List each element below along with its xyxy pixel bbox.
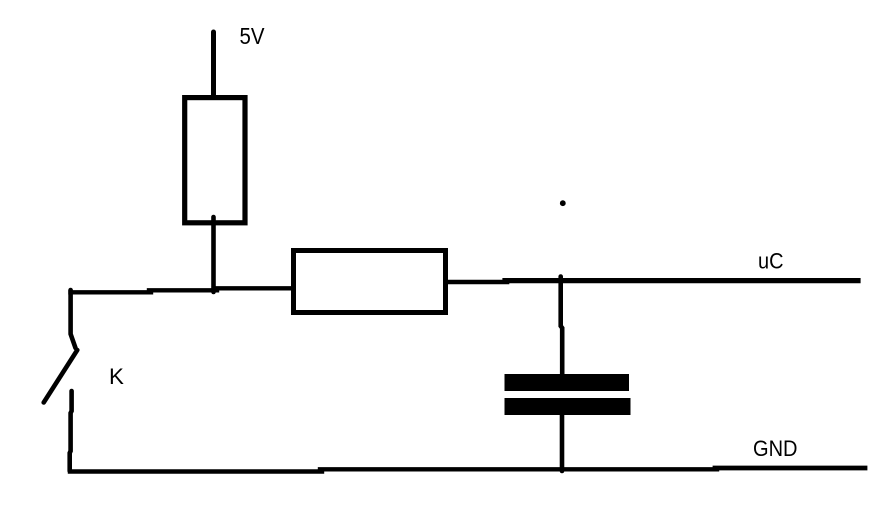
resistor R2 [294, 251, 446, 313]
wire capacitor top lead [561, 277, 563, 379]
svg-text:GND: GND [753, 436, 798, 461]
wire GND middle segment [320, 467, 717, 471]
wire R1 bottom to node [211, 217, 216, 292]
node dot above junction [560, 200, 566, 206]
svg-text:K: K [109, 364, 124, 389]
resistor R1 [185, 98, 245, 223]
wire GND right segment [715, 466, 865, 471]
wire node horizontal left segment [71, 290, 152, 294]
wire GND left segment [70, 469, 322, 473]
wire node to R2 left [214, 286, 294, 290]
wire node uC line [505, 278, 858, 283]
svg-text:5V: 5V [240, 23, 265, 49]
wire switch lower lead [70, 391, 72, 471]
wire switch upper lead [71, 290, 76, 348]
wire node horizontal middle segment [149, 288, 217, 292]
wire R2 right segment [447, 280, 507, 285]
capacitor C1 top plate [505, 374, 630, 391]
wire capacitor bottom lead [560, 412, 565, 471]
wire 5V supply to R1 top [211, 32, 216, 100]
capacitor C1 bottom plate [505, 398, 631, 415]
switch K blade [44, 350, 78, 403]
svg-text:uC: uC [758, 249, 784, 274]
